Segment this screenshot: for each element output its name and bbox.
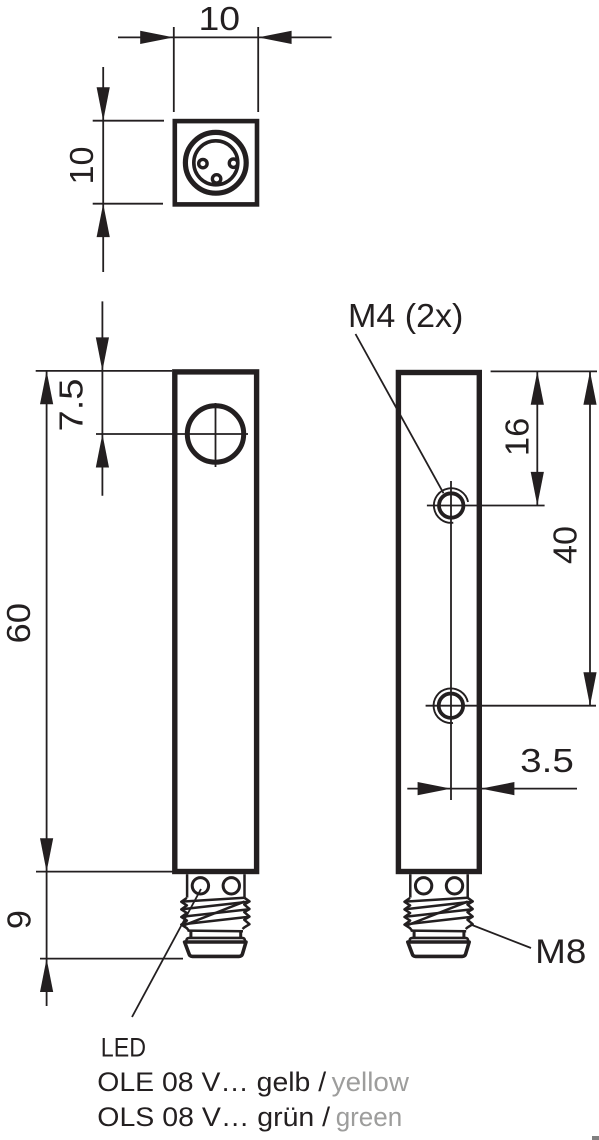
dimension line: [589, 371, 591, 705]
arrowhead down-pointing: [531, 472, 544, 506]
DIMENSION 3.5: [407, 743, 577, 795]
M8 connector inner circle: [194, 141, 238, 185]
thread helix line 2: [182, 909, 249, 917]
TOP VIEW GROUP: [175, 121, 257, 204]
M8 CONNECTOR (side view, copy): [405, 874, 473, 956]
lens circle: [187, 406, 243, 462]
arrowhead down-pointing: [96, 337, 109, 371]
lens crosshair horizontal / 7.5 extension: [96, 433, 248, 435]
hole 1 crosshair horizontal: [427, 505, 545, 507]
label LED with leader: [101, 889, 201, 1063]
M8 CONNECTOR (front view): [181, 874, 249, 956]
collar flange: [186, 938, 245, 942]
svg-text:40: 40: [548, 526, 585, 564]
svg-text:7.5: 7.5: [54, 379, 91, 432]
hole centerline vertical: [450, 481, 452, 800]
arrowhead up-pointing: [583, 371, 596, 404]
dimension line: [536, 371, 538, 505]
svg-text:green: green: [336, 1102, 403, 1132]
svg-text:yellow: yellow: [332, 1067, 410, 1097]
arrowhead right-pointing: [418, 782, 451, 795]
svg-text:60: 60: [1, 603, 38, 644]
svg-text:M8: M8: [535, 933, 586, 971]
dimension line: [46, 371, 48, 1006]
DIMENSION 60 and 9: [1, 371, 183, 1006]
svg-text:3.5: 3.5: [520, 743, 574, 780]
pin hole right: [229, 159, 237, 167]
thread left edge zigzag: [181, 898, 189, 931]
pin hole left: [199, 159, 207, 167]
neck right: [239, 931, 242, 939]
arrowhead left-pointing: [258, 31, 291, 44]
label 16 rotated: [499, 418, 536, 456]
svg-text:10: 10: [199, 1, 241, 38]
mounting hole 2 thread arc: [434, 688, 468, 723]
arrowhead up-pointing: [97, 204, 110, 237]
arrowhead right-pointing: [140, 31, 173, 44]
neck left: [189, 931, 192, 939]
front view housing rect: [175, 372, 257, 872]
LED right: [223, 878, 239, 894]
SIDE VIEW GROUP: [398, 373, 596, 872]
M4 leader line: [356, 334, 444, 493]
extension line right: [257, 27, 259, 112]
LED leader line: [132, 889, 201, 1017]
DIMENSION 16: [491, 371, 597, 505]
tip trapezoid: [185, 942, 246, 956]
dimension line: [118, 36, 332, 38]
svg-text:M4 (2x): M4 (2x): [348, 298, 463, 335]
side view housing rect: [398, 373, 479, 872]
svg-text:OLS 08 V… grün /: OLS 08 V… grün /: [97, 1102, 330, 1132]
arrowhead down-pointing (60 bottom / 9 top): [40, 838, 53, 871]
svg-text:16: 16: [499, 418, 536, 456]
thread helix line 1: [182, 902, 249, 910]
extension tick at rect bottom: [36, 871, 174, 873]
svg-text:OLE 08 V… gelb /: OLE 08 V… gelb /: [97, 1067, 326, 1097]
mounting hole 2: [439, 694, 463, 718]
dimension line: [102, 67, 104, 272]
top extension line: [491, 370, 597, 372]
label 10 rotated: [64, 147, 101, 185]
DIMENSION height 10 (left of top view): [64, 67, 164, 272]
arrowhead left-pointing: [481, 782, 514, 795]
label 60 rotated: [1, 603, 38, 644]
M8 connector outer circle: [185, 132, 246, 193]
arrowhead down-pointing: [97, 87, 110, 120]
top view housing square: [175, 121, 257, 204]
thread root line bottom: [188, 929, 244, 932]
DIMENSION 7.5: [54, 301, 110, 495]
dimension line: [407, 788, 577, 790]
arrowhead up-pointing (60 top): [40, 371, 53, 404]
svg-text:LED: LED: [101, 1033, 146, 1063]
DIMENSION 40: [548, 371, 597, 705]
DIMENSION width 10 (top): [118, 1, 332, 112]
LED collar right line: [243, 874, 246, 897]
label 40 rotated: [548, 526, 585, 564]
extension tick bottom: [93, 203, 163, 205]
gray corner block: [592, 1136, 599, 1140]
svg-text:10: 10: [64, 147, 101, 185]
hole 2 crosshair horizontal: [426, 705, 596, 707]
extension tick top: [93, 120, 164, 122]
label M4 (2x): [348, 298, 463, 493]
svg-text:9: 9: [1, 910, 38, 929]
extension tick at connector tip: [40, 958, 183, 960]
label 9 rotated: [1, 910, 38, 929]
thread right edge zigzag: [243, 898, 250, 929]
arrowhead down-pointing: [583, 672, 596, 706]
thread helix steep lead line: [184, 902, 245, 926]
thread crest line top: [182, 898, 245, 902]
extension line left: [173, 27, 175, 112]
LED collar left line: [186, 874, 189, 897]
caption line OLE: [97, 1067, 409, 1097]
caption line OLS: [97, 1102, 402, 1132]
arrowhead up-pointing: [531, 371, 544, 404]
dimension line: [101, 301, 103, 495]
arrowhead up-pointing: [96, 434, 109, 468]
FRONT VIEW GROUP: [96, 372, 257, 872]
mounting hole 1: [439, 493, 463, 517]
mounting hole 1 thread arc: [434, 488, 468, 523]
thread helix line 3: [182, 917, 249, 925]
pin hole bottom: [212, 175, 220, 183]
LED left: [192, 878, 208, 894]
label M8 with leader: [472, 925, 586, 971]
lens crosshair vertical: [215, 403, 217, 467]
top extension line: [36, 370, 172, 372]
M8 leader line: [472, 925, 531, 948]
arrowhead up-pointing (9 bottom): [40, 959, 53, 992]
label 7.5 rotated: [54, 379, 91, 432]
